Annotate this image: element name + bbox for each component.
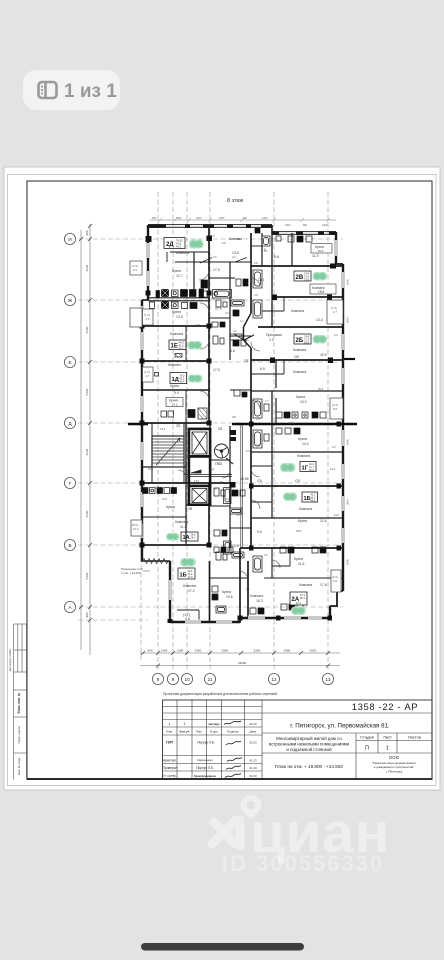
top center utility fixtures: [255, 228, 281, 241]
partition 1Д x186: [185, 390, 187, 423]
svg-text:Красильников: Красильников: [194, 774, 216, 778]
inner wall niches left: [143, 309, 154, 382]
badge 1Е: [169, 340, 186, 351]
svg-text:Дата: Дата: [250, 730, 257, 734]
watermark logo pin: [241, 795, 262, 819]
svg-text:Стадия: Стадия: [360, 735, 374, 740]
ventilation fan symbol: [215, 444, 229, 458]
СВ small labels: [155, 359, 248, 511]
svg-text:3.8: 3.8: [222, 241, 226, 245]
svg-text:СВ: СВ: [244, 359, 248, 363]
bathtub right of elevator 2: [224, 488, 232, 555]
svg-text:11.6: 11.6: [298, 562, 304, 566]
svg-text:40.3: 40.3: [176, 245, 182, 249]
svg-text:4.2: 4.2: [232, 255, 236, 259]
svg-text:2610: 2610: [346, 317, 350, 323]
svg-text:9.5: 9.5: [257, 530, 262, 534]
svg-text:и гражданского строительства": и гражданского строительства": [374, 765, 414, 769]
boxed room labels: [166, 244, 336, 407]
svg-text:13: 13: [325, 677, 331, 682]
watermark symbol: [212, 820, 240, 846]
balcony right 3: [331, 570, 341, 592]
signatures: [224, 721, 242, 778]
right wall bottom piece: [329, 606, 331, 619]
green pill 1Е: [188, 341, 203, 350]
grid axis col 11: [209, 192, 211, 672]
wall x272 segment 297-327 extension: [271, 297, 273, 327]
svg-text:2Б: 2Б: [296, 338, 304, 344]
gallery icon: [39, 82, 57, 98]
svg-text:СВ: СВ: [155, 486, 159, 490]
svg-text:2610: 2610: [346, 499, 350, 505]
svg-text:12: 12: [271, 677, 277, 682]
svg-text:N док.: N док.: [210, 730, 219, 734]
top wall window mid-lines: [166, 226, 329, 233]
kitchen counter row apt 2Д: [156, 289, 204, 298]
green pill 1Д: [188, 375, 203, 383]
svg-text:4.6: 4.6: [230, 349, 235, 353]
WC room bottom-left: [177, 610, 199, 622]
svg-text:73.0: 73.0: [304, 277, 310, 281]
svg-text:40.4: 40.4: [180, 381, 185, 384]
door diagonals on wall y262: [200, 258, 247, 264]
svg-text:Порхун Л.Б.: Порхун Л.Б.: [197, 741, 215, 745]
bottom dashed closing line: [78, 619, 148, 621]
kitchen fixture row 1Б-left top: [214, 547, 326, 553]
bath partition y318: [209, 317, 230, 319]
svg-text:1: 1: [386, 746, 389, 752]
svg-text:Кухня: Кухня: [170, 384, 179, 388]
svg-text:03.23: 03.23: [250, 722, 257, 726]
svg-text:1358 -22 - АР: 1358 -22 - АР: [352, 702, 418, 713]
kitchen counter row apt 1Е: [150, 302, 198, 309]
svg-text:Е: Е: [68, 360, 71, 365]
svg-text:55.1: 55.1: [300, 597, 305, 600]
svg-text:2.6: 2.6: [264, 553, 268, 557]
svg-text:43.96: 43.96: [288, 421, 295, 425]
svg-text:1200: 1200: [196, 217, 202, 220]
svg-text:3.6: 3.6: [185, 617, 190, 621]
svg-text:Кухня: Кухня: [296, 395, 305, 399]
corridor partitions near core: [230, 389, 251, 391]
svg-text:44.1: 44.1: [296, 602, 301, 605]
svg-text:14.2: 14.2: [160, 427, 166, 431]
top wall right piers: [272, 231, 336, 234]
secondary dashed axis near left wall: [140, 505, 142, 660]
bath partition y262: [209, 261, 251, 263]
wall y266: [251, 265, 343, 267]
left dimension numbers (rotated): [85, 230, 89, 617]
wall y326: [142, 325, 209, 327]
wall at Г y483: [142, 482, 230, 484]
svg-text:12.9: 12.9: [133, 527, 139, 531]
partition 1Г hall y466: [251, 465, 272, 467]
right wall lower step: [330, 591, 343, 606]
wall y327: [258, 326, 343, 328]
badge 1Г: [300, 462, 316, 473]
svg-text:и подземной стоянкой: и подземной стоянкой: [286, 747, 332, 752]
svg-text:13.5: 13.5: [176, 315, 183, 319]
svg-text:2В: 2В: [296, 275, 304, 281]
grid axis row Г: [78, 482, 343, 484]
svg-text:П: П: [365, 746, 369, 752]
svg-text:11: 11: [208, 677, 213, 682]
small core labels: [194, 468, 223, 484]
green pill 1Б-left: [180, 558, 196, 567]
svg-text:Комната: Комната: [176, 251, 189, 255]
svg-text:Н. контр.: Н. контр.: [163, 774, 176, 778]
home indicator bar: [141, 943, 304, 951]
bottom kitchens fixtures: [216, 604, 303, 614]
wall y517 partition: [142, 516, 186, 518]
left margin stamp column: [14, 624, 27, 780]
wall y424: [251, 423, 343, 425]
svg-text:10: 10: [184, 677, 190, 682]
partition 2Б bath x284: [251, 360, 284, 374]
extra fixtures bath row mid: [212, 322, 247, 558]
right section dividers: [262, 712, 432, 714]
svg-text:01.23: 01.23: [250, 759, 257, 763]
left dimension tick marks: [79, 224, 92, 622]
vertical x272 top: [271, 233, 273, 297]
svg-text:3000: 3000: [346, 439, 350, 445]
bath cluster mid2: [213, 334, 242, 344]
vertical x272 mid: [271, 391, 273, 452]
svg-text:10.0: 10.0: [300, 400, 307, 404]
partition top-right x262: [261, 233, 263, 266]
kitchen fixture bottom-left: [212, 594, 218, 600]
svg-text:2360: 2360: [195, 649, 202, 653]
svg-text:ID 300556330: ID 300556330: [222, 851, 384, 876]
wall y391: [251, 390, 343, 392]
svg-text:2.5: 2.5: [146, 317, 150, 321]
svg-text:4.0: 4.0: [264, 249, 268, 253]
svg-text:3.7: 3.7: [255, 567, 259, 571]
svg-text:17.6: 17.6: [320, 583, 327, 587]
grid axis row А: [78, 606, 343, 608]
svg-text:24680: 24680: [238, 661, 247, 665]
svg-text:1.6: 1.6: [211, 234, 215, 238]
frame bottom heavy edge: [27, 778, 432, 780]
svg-text:3.8: 3.8: [236, 237, 240, 241]
svg-text:Инв. № подл.: Инв. № подл.: [17, 757, 21, 775]
right wall upper: [335, 232, 337, 264]
svg-text:46.0: 46.0: [309, 469, 314, 472]
svg-text:Комната: Комната: [299, 507, 312, 511]
svg-text:Многоквартирный жилой дом со: Многоквартирный жилой дом со: [276, 736, 342, 741]
svg-text:2.2: 2.2: [269, 338, 274, 342]
svg-text:900: 900: [85, 612, 89, 617]
left step wall with insulation zigzag: [141, 560, 170, 562]
svg-text:45.2: 45.2: [318, 387, 324, 391]
svg-text:14.0: 14.0: [302, 442, 309, 446]
svg-text:Комната: Комната: [170, 332, 183, 336]
svg-text:для внутр. работ: для внутр. работ: [8, 648, 12, 671]
corridor wall x251 lower: [250, 348, 252, 548]
svg-text:Подп. и дата: Подп. и дата: [17, 726, 21, 743]
svg-text:Лист: Лист: [196, 730, 203, 734]
badge 2В: [294, 271, 311, 281]
svg-text:14.1: 14.1: [172, 403, 178, 407]
left table horizontals: [163, 706, 263, 708]
svg-text:СВ: СВ: [196, 323, 200, 327]
svg-text:1: 1: [169, 722, 171, 726]
green pill 1Б-right: [283, 493, 297, 502]
badge 1А: [181, 532, 198, 541]
vertical x240 bottom room: [239, 548, 241, 622]
bottom dimension line 2: [140, 665, 340, 667]
title block inner lines: [163, 700, 433, 780]
mid bath fixtures near core bottom: [214, 488, 242, 560]
svg-text:В: В: [68, 543, 71, 548]
right wing bath column: [253, 270, 269, 572]
partition 2Д hall x167: [166, 252, 168, 262]
right margin rotated dimension numbers: [346, 279, 350, 565]
green pill 2А: [291, 607, 306, 616]
svg-text:встроенными нежилыми помещения: встроенными нежилыми помещениями: [269, 742, 350, 747]
svg-text:2.7: 2.7: [333, 310, 337, 314]
svg-text:1Г: 1Г: [302, 466, 309, 472]
svg-text:19.6: 19.6: [194, 479, 200, 483]
svg-text:Взам. инв. №: Взам. инв. №: [17, 692, 21, 713]
right kitchens fixtures row: [276, 412, 326, 418]
svg-text:Комната: Комната: [299, 583, 312, 587]
svg-text:СВ: СВ: [294, 355, 299, 359]
svg-text:СВ: СВ: [257, 479, 262, 483]
svg-text:Кухня: Кухня: [294, 557, 303, 561]
svg-text:1.8: 1.8: [211, 297, 215, 301]
svg-text:1280: 1280: [177, 649, 184, 653]
svg-text:1Б: 1Б: [180, 573, 187, 579]
balcony left 1: [130, 261, 142, 275]
kitchen 1Д fixtures row: [155, 354, 208, 420]
left grid bubbles И Ж Е Д Г В А: [64, 233, 75, 612]
svg-text:10.6: 10.6: [162, 497, 168, 501]
wall y518: [251, 517, 343, 519]
svg-text:Проверил: Проверил: [163, 766, 178, 770]
grid axis row Е: [78, 361, 343, 363]
left dimension chain lines: [81, 224, 90, 655]
svg-text:Кухня: Кухня: [298, 519, 307, 523]
bottom dimension ticks: [141, 651, 330, 668]
svg-text:2.6: 2.6: [213, 255, 217, 259]
svg-text:3000: 3000: [346, 279, 350, 285]
svg-text:4.2: 4.2: [240, 319, 244, 323]
svg-text:16.6: 16.6: [334, 513, 340, 517]
corridor left wall x230 mid: [229, 483, 231, 548]
corridor left wall upper x230: [229, 262, 231, 360]
svg-text:План на отм. + 19.800 - +24.60: План на отм. + 19.800 - +24.600: [275, 764, 343, 769]
white drawing sheet: [4, 167, 440, 790]
partition 2Д x194: [193, 252, 195, 293]
svg-text:12.6: 12.6: [320, 519, 327, 523]
grid axis row И: [78, 238, 343, 240]
svg-text:4.5: 4.5: [332, 445, 336, 449]
partition x170 room split upper: [170, 251, 209, 253]
svg-text:9: 9: [172, 677, 175, 682]
svg-text:17.5: 17.5: [213, 268, 220, 272]
partition x276 segment 360-424: [275, 360, 277, 424]
spine wall x209 upper: [208, 226, 210, 423]
svg-text:ХВ: ХВ: [188, 507, 192, 511]
green pill 2Д: [189, 240, 204, 249]
corridor wall x251 upper: [250, 233, 252, 313]
svg-text:1 из 1: 1 из 1: [64, 81, 117, 102]
wall at Д y423: [142, 422, 209, 424]
svg-text:И: И: [68, 237, 71, 242]
top wall left piers: [148, 224, 272, 227]
staircase: [152, 436, 184, 467]
svg-text:7.7: 7.7: [265, 399, 269, 403]
svg-text:8.9: 8.9: [260, 367, 265, 371]
svg-text:900: 900: [243, 217, 248, 220]
corridor return diagonal: [244, 340, 252, 348]
svg-text:Кол.уч: Кол.уч: [180, 730, 190, 734]
svg-text:9.4: 9.4: [174, 391, 179, 395]
bottom wall step connector: [239, 617, 241, 623]
svg-text:Лист: Лист: [383, 735, 392, 740]
svg-text:6130: 6130: [85, 264, 89, 271]
svg-text:2960: 2960: [222, 649, 229, 653]
wall y548: [240, 547, 343, 549]
svg-text:1Д: 1Д: [172, 377, 180, 383]
right wall jog: [335, 263, 343, 265]
badge 1Б-left: [178, 568, 195, 579]
green pill 1А: [166, 533, 180, 541]
svg-text:1300: 1300: [161, 649, 168, 653]
mid-left kitchen fixtures 1А: [143, 488, 177, 494]
right kitchens fixtures row 2: [276, 428, 300, 434]
svg-text:13.6: 13.6: [232, 251, 239, 255]
green pill 2Б: [313, 335, 328, 344]
svg-text:6.9: 6.9: [133, 268, 137, 272]
wall y452: [251, 451, 343, 453]
svg-text:1Е: 1Е: [171, 344, 178, 350]
svg-text:3.9: 3.9: [254, 293, 258, 297]
partition 2В bath x284: [262, 297, 284, 311]
left table verticals: [176, 700, 178, 780]
svg-text:43.96: 43.96: [240, 477, 249, 481]
svg-text:16.4: 16.4: [320, 545, 326, 549]
svg-text:3000: 3000: [346, 559, 350, 565]
top flat partition y246: [251, 245, 262, 247]
svg-text:10.4: 10.4: [232, 544, 239, 548]
svg-text:6130: 6130: [85, 326, 89, 333]
svg-text:2.7: 2.7: [146, 374, 150, 378]
corridor neck x243.5: [243, 327, 245, 340]
bottom-left apartment wall x209.5: [209, 561, 211, 622]
diagonal corridor walls: [244, 313, 252, 327]
bath partition y336: [230, 335, 251, 337]
svg-text:6.2: 6.2: [230, 461, 234, 465]
svg-text:3.6: 3.6: [236, 513, 240, 517]
svg-text:8 этаж: 8 этаж: [227, 198, 244, 204]
note text above level mark: [121, 567, 143, 575]
core surrounding walls: [142, 423, 230, 505]
svg-text:Архитект.: Архитект.: [163, 759, 177, 763]
svg-text:Изм.: Изм.: [166, 730, 173, 734]
svg-text:12.7: 12.7: [176, 274, 183, 278]
wall y486: [251, 485, 343, 487]
svg-text:Кухня: Кухня: [166, 505, 175, 509]
spine wall x209 lower: [208, 483, 210, 545]
badge 2А: [290, 592, 307, 605]
right wall main: [342, 264, 344, 591]
elevator shaft 2: [189, 486, 210, 505]
svg-text:16.1: 16.1: [144, 487, 151, 491]
grid axis row Д: [78, 422, 343, 424]
svg-text:4.0: 4.0: [246, 449, 250, 453]
walls below stair: [152, 467, 184, 483]
svg-text:Комната: Комната: [297, 454, 310, 458]
main drawing frame: [27, 181, 432, 779]
svg-text:1.8: 1.8: [213, 487, 217, 491]
svg-text:Проектная документация разрабо: Проектная документация разработана для в…: [163, 692, 277, 696]
windows bottom wall: [185, 616, 322, 625]
bottom dimension line 1: [140, 652, 340, 654]
left margin rotated texts: [8, 648, 21, 775]
svg-text:11.9: 11.9: [312, 254, 318, 258]
pier on spine at И: [207, 236, 213, 242]
left wall step at Ж: [142, 299, 148, 301]
svg-text:2.2: 2.2: [233, 329, 237, 333]
svg-text:900: 900: [152, 217, 157, 220]
svg-text:Порхун Л.Б.: Порхун Л.Б.: [196, 766, 214, 770]
svg-text:19.9: 19.9: [320, 353, 327, 357]
svg-text:Кухня: Кухня: [172, 310, 181, 314]
svg-text:3.4: 3.4: [256, 443, 260, 447]
svg-text:Кухня: Кухня: [172, 269, 181, 273]
corridor floor line at core: [186, 424, 242, 548]
tiny dimension numbers above top wall: [152, 217, 328, 227]
svg-text:01.24: 01.24: [250, 766, 257, 770]
svg-text:Подпись: Подпись: [227, 730, 239, 734]
svg-text:2.4: 2.4: [226, 497, 230, 501]
wall y578 partition: [264, 577, 343, 579]
windows right wall: [334, 240, 346, 543]
svg-text:3.8: 3.8: [254, 261, 258, 265]
balcony right 1: [327, 300, 343, 324]
badge 1Б-right: [302, 492, 318, 502]
left wall middle: [141, 300, 143, 561]
grid axis col 12: [273, 192, 275, 672]
svg-text:900: 900: [303, 224, 308, 227]
svg-text:ООО: ООО: [389, 755, 400, 760]
svg-text:СВ: СВ: [295, 479, 300, 483]
elevator shaft 1: [189, 429, 210, 457]
bottom-left hall partition y578: [210, 577, 249, 579]
top wall left section faces: [148, 225, 272, 228]
balcony left 2: [130, 308, 142, 327]
top wall right section faces: [272, 232, 336, 235]
svg-text:Прихожая: Прихожая: [266, 333, 282, 337]
svg-text:17.5: 17.5: [201, 420, 207, 424]
grid axis row Ж: [78, 299, 343, 301]
svg-text:17.0: 17.0: [213, 368, 220, 372]
wall at В y545: [142, 544, 209, 546]
photo counter pill "1 из 1": [23, 70, 120, 110]
svg-text:6130: 6130: [85, 448, 89, 455]
svg-text:2620: 2620: [310, 649, 317, 653]
svg-text:2Д: 2Д: [166, 242, 174, 248]
svg-text:44.5: 44.5: [311, 499, 316, 502]
svg-text:г. Пятигорск, ул. Первомайска: г. Пятигорск, ул. Первомайская 81.: [290, 723, 390, 730]
bottom wall left section: [170, 621, 240, 623]
partition 1Б hall y502: [251, 501, 272, 503]
svg-text:1.6: 1.6: [246, 587, 250, 591]
svg-text:3290: 3290: [254, 649, 261, 653]
column squares at wall ends: [140, 236, 342, 623]
